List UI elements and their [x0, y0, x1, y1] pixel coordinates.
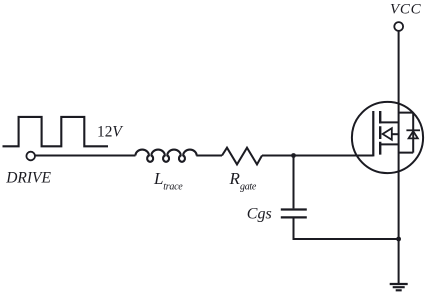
transistor gate bar: [372, 111, 374, 156]
wire source connect: [379, 143, 398, 145]
wire body-diode branch: [399, 113, 414, 153]
transistor channel segments: [379, 111, 381, 155]
wire capacitor bottom lead: [294, 218, 399, 239]
ground: [390, 284, 408, 290]
svg-text:trace: trace: [163, 182, 183, 193]
terminal VCC: [394, 22, 403, 31]
diode D1 triangle: [409, 131, 418, 138]
wire: [35, 155, 135, 157]
resistor R_gate: [222, 148, 262, 165]
terminal DRIVE: [26, 152, 35, 161]
svg-text:Cgs: Cgs: [247, 206, 272, 223]
capacitor Cgs: [281, 210, 307, 218]
svg-text:VCC: VCC: [390, 2, 422, 18]
diode cathode bar: [406, 129, 420, 131]
drive pulse waveform: [3, 117, 109, 146]
wire to gate: [262, 155, 373, 157]
svg-text:R: R: [229, 169, 241, 188]
inductor L_trace: [136, 150, 197, 162]
wire: [196, 155, 222, 157]
svg-text:gate: gate: [240, 182, 257, 193]
node junction at capacitor tap: [291, 153, 296, 158]
svg-text:12V: 12V: [97, 123, 123, 140]
svg-text:DRIVE: DRIVE: [5, 170, 51, 187]
transistor Q1 body circle: [352, 102, 423, 173]
wire capacitor top lead: [293, 156, 295, 209]
wire body connect: [392, 133, 399, 135]
wire VCC rail down to ground: [398, 31, 400, 283]
svg-text:L: L: [153, 169, 163, 188]
node junction at ground rail: [396, 237, 401, 242]
transistor body arrow: [383, 128, 392, 140]
wire drain connect: [379, 121, 398, 123]
